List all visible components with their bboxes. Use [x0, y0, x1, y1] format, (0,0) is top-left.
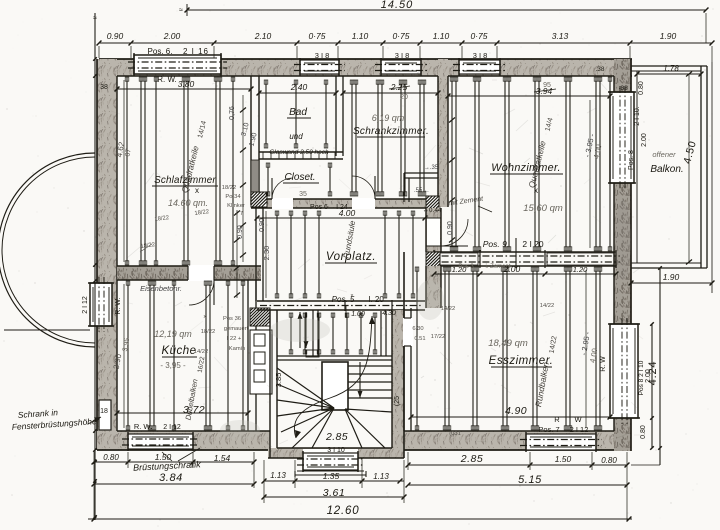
svg-text:0·75: 0·75: [392, 31, 409, 41]
svg-text:W: W: [574, 415, 582, 424]
svg-text:2.10: 2.10: [254, 31, 272, 41]
svg-text:Eisenbetonr.: Eisenbetonr.: [140, 284, 182, 293]
dimension row 1.20/2.00/1.20 (Esszimmer top): [432, 264, 619, 276]
interior dimension 3.72 (Kueche): [115, 404, 251, 416]
rotated dimensions Esszimmer right: [579, 331, 599, 364]
beam band Pos.9 2I20 between Wohnzimmer and Esszimmer: [428, 250, 620, 268]
svg-text:6.30: 6.30: [412, 326, 423, 332]
svg-text:1.78: 1.78: [663, 64, 679, 73]
svg-text:3.85: 3.85: [274, 373, 283, 388]
joists Closet: [266, 163, 332, 196]
svg-text:1.10: 1.10: [433, 31, 450, 41]
room label Schlafzimmer 14.60qm: [152, 175, 218, 208]
svg-text:0.90: 0.90: [259, 218, 266, 232]
svg-text:14/22: 14/22: [540, 303, 555, 309]
window 3I8 (Wohnzimmer top): [453, 51, 506, 76]
rotated dimensions Wohnzimmer right: [447, 110, 603, 248]
svg-text:4.24: 4.24: [647, 361, 659, 386]
svg-text:3.10: 3.10: [240, 122, 250, 137]
stair enclosure walls: [270, 252, 404, 458]
svg-text:I. 20: I. 20: [368, 295, 384, 304]
hatched pier near Wohnzimmer door: [426, 196, 439, 215]
joists Schlafzimmer: [125, 77, 235, 265]
window 2I12 (left wall): [82, 277, 122, 332]
wall: bottom exterior (right segment): [404, 431, 631, 450]
spine wall: hall | Esszimmer (lower): [426, 266, 441, 308]
smudges / pencil shading: [220, 200, 631, 440]
room label Closet: [283, 172, 319, 198]
rotated dimensions left side: [112, 80, 133, 428]
extension lines bottom: [94, 452, 627, 520]
wall: bottom exterior (left segment): [97, 431, 270, 450]
bay window arc (ground floor outline): [0, 153, 95, 347]
svg-text:3.80: 3.80: [178, 79, 195, 89]
dimension 3.84: [92, 472, 257, 486]
svg-text:4.00: 4.00: [592, 143, 604, 159]
svg-text:Brüstungschrank: Brüstungschrank: [133, 459, 201, 473]
svg-text:14/22: 14/22: [549, 335, 559, 354]
room label Wohnzimmer 15.60qm: [490, 162, 563, 214]
note Schrank in Fensterbruestungshoehe: [11, 407, 101, 432]
svg-text:0,76: 0,76: [229, 106, 236, 120]
svg-text:0.90: 0.90: [447, 221, 454, 235]
svg-text:14/22: 14/22: [194, 349, 209, 355]
wall B: Bad | Schrankzimmer: [336, 76, 343, 156]
svg-text:R: R: [554, 415, 560, 424]
wall: right exterior: [614, 59, 631, 451]
svg-text:Pos 6: Pos 6: [310, 204, 328, 211]
joists Kueche: [126, 281, 245, 430]
door swing: Schlafzimmer door: [189, 280, 214, 305]
balcony outline (Balkon): [631, 66, 707, 268]
svg-text:0.90: 0.90: [107, 31, 124, 41]
wall: Vorplatz left (Schlafzimmer side): [256, 208, 263, 301]
svg-text:x: x: [204, 314, 207, 320]
svg-text:·88: ·88: [618, 85, 628, 92]
window 3I8 (Schrankzimmer top): [375, 51, 427, 76]
svg-text:2 I 16: 2 I 16: [183, 47, 209, 56]
svg-text:2.85: 2.85: [325, 431, 348, 443]
svg-text:1.10: 1.10: [352, 31, 369, 41]
svg-text:Pos. 8: Pos. 8: [628, 150, 635, 170]
door swing: Schrankzimmer door: [352, 176, 375, 199]
svg-text:0.80: 0.80: [640, 425, 647, 439]
bottom dimension row 1.13/1.35/1.13 (stairs): [262, 471, 404, 483]
svg-text:0.51: 0.51: [414, 336, 425, 342]
wall: left exterior: [97, 59, 117, 450]
svg-text:0.80: 0.80: [638, 81, 645, 95]
dimension row top (0.90 / 2.00 / 2.10 / 0.75 / 1.10 / 0.75 / 1.10 / 0.75 / 3.13 / 1.90): [97, 31, 715, 45]
svg-text:17/22: 17/22: [431, 334, 446, 340]
svg-text:6,19 qm: 6,19 qm: [372, 113, 405, 123]
svg-text:3.90: 3.90: [112, 353, 124, 370]
chimney block with flues: [250, 308, 272, 394]
svg-text:Klinker: Klinker: [227, 203, 245, 209]
svg-text:35: 35: [299, 191, 307, 198]
svg-text:3 I 8: 3 I 8: [315, 51, 330, 60]
svg-text:i. Zement: i. Zement: [485, 264, 510, 270]
wall: top exterior (y59-76): [99, 59, 632, 76]
svg-text:3,95: 3,95: [122, 337, 131, 352]
wall A: Schlafzimmer | Bad/Closet: [251, 76, 259, 205]
small fraction notes Schlafzimmer: [140, 209, 209, 252]
balcony door Pos.8 2I10 (right wall): [595, 66, 648, 189]
svg-text:I 22 +: I 22 +: [227, 336, 242, 342]
joists Bad: [264, 80, 328, 148]
svg-text:↔0.44: ↔0.44: [422, 207, 442, 214]
interior dimension 3.94 (Wohnzimmer): [446, 82, 613, 98]
room label Bad: [269, 107, 329, 156]
joists Vorplatz: [275, 211, 415, 298]
svg-text:Pos. 9.: Pos. 9.: [483, 239, 509, 249]
svg-text:→.35: →.35: [424, 165, 439, 171]
labels Pos.9 2I20: [483, 238, 544, 268]
window Pos.8 2I10 (Esszimmer right wall): [600, 318, 652, 439]
interior dimension 2.40 (Bad): [257, 82, 339, 95]
svg-text:Po 34: Po 34: [225, 194, 241, 200]
dimension 1.90 (balcony bottom): [629, 62, 715, 293]
wall: Closet/Schrankzimmer bottom = Vorplatz top: [251, 198, 430, 209]
svg-text:2.00: 2.00: [641, 133, 648, 147]
room label Balkon: [650, 150, 683, 175]
svg-text:14/14: 14/14: [197, 120, 208, 139]
bottom dimension row 2.85/1.50/0.80 (Esszimmer): [406, 453, 630, 467]
svg-text:2 I 20: 2 I 20: [522, 239, 544, 249]
niche wall in Schrankzimmer bottom-right: [404, 165, 439, 202]
dimension 5.15: [406, 474, 630, 487]
joists Wohnzimmer: [450, 77, 612, 251]
svg-text:2 I 12: 2 I 12: [570, 425, 589, 434]
svg-text:0.80: 0.80: [601, 456, 617, 465]
hatched pier left of beam band: [426, 252, 440, 272]
svg-text:18/22: 18/22: [222, 185, 237, 191]
wall: Schlafzimmer | Kueche (Eisenbeton): [117, 265, 261, 281]
svg-text:2.00: 2.00: [163, 31, 181, 41]
svg-text:1.00: 1.00: [351, 311, 365, 318]
svg-text:18/22: 18/22: [140, 242, 155, 250]
wall: Kueche | stair hall: [248, 280, 256, 431]
joists hall below Vorplatz: [289, 313, 377, 354]
svg-text:Wohnzimmer.: Wohnzimmer.: [491, 162, 561, 174]
svg-text:R. W: R. W: [600, 356, 607, 372]
svg-text:Schrank in: Schrank in: [17, 407, 58, 420]
svg-text:x: x: [351, 293, 354, 299]
interior dimension 3.80 (Schlafzimmer): [115, 79, 254, 91]
svg-text:3.13: 3.13: [552, 31, 569, 41]
svg-text:3.84: 3.84: [159, 472, 183, 484]
svg-text:12.60: 12.60: [327, 505, 360, 517]
svg-text:Küche: Küche: [161, 345, 196, 357]
svg-text:15,60 qm: 15,60 qm: [523, 203, 563, 214]
svg-text:Kamin: Kamin: [229, 346, 245, 352]
svg-text:Pos. 7: Pos. 7: [538, 425, 559, 434]
door swing: Closet door: [272, 178, 293, 199]
interior dimension 4.00 (Vorplatz): [255, 204, 442, 220]
svg-text:2.30: 2.30: [262, 246, 271, 261]
wall C: Schrankzimmer | Wohnzimmer: [438, 59, 448, 207]
svg-text:16/22: 16/22: [197, 356, 207, 374]
svg-text:(25: (25: [394, 396, 401, 406]
svg-text:- 3,95 -: - 3,95 -: [160, 361, 186, 370]
svg-text:Pos 3: Pos 3: [458, 264, 474, 270]
svg-text:0·75: 0·75: [470, 31, 487, 41]
note Bruestungschrank: [133, 448, 201, 473]
small cupboard in left wall (Schrank): [99, 400, 111, 430]
hatched pier at Vorplatz top-left: [251, 192, 267, 207]
dimension line left vertical: [93, 13, 108, 520]
interior dimension 2.25/2.20 (Schrankzimmer): [341, 82, 441, 101]
svg-text:1.90: 1.90: [663, 272, 680, 282]
interior dimension 4.90 (Esszimmer): [409, 405, 613, 419]
svg-text:2 I 12: 2 I 12: [82, 296, 89, 314]
window Pos.6 2I16 (Schlafzimmer top): [128, 47, 227, 84]
svg-text:4.50: 4.50: [681, 139, 699, 165]
window R.W 2I12 (Kueche bottom): [122, 422, 199, 451]
svg-text:14.50: 14.50: [381, 0, 414, 11]
svg-text:3.61: 3.61: [323, 487, 345, 499]
svg-text:1.13: 1.13: [270, 471, 286, 480]
room label Esszimmer 18.49qm: [488, 338, 553, 367]
bottom dimension row 0.80/1.50/1.54: [92, 452, 257, 464]
room label Kueche 12.19qm: [154, 329, 197, 370]
wall: Vorplatz bottom / stair top with beam Pos.5 I20: [257, 300, 425, 311]
wall: Esszimmer left: [403, 308, 413, 431]
svg-text:38: 38: [100, 84, 108, 91]
labels Pos.5 I20: [332, 295, 396, 318]
svg-text:1.90: 1.90: [248, 132, 258, 147]
svg-text:0.80: 0.80: [103, 453, 119, 462]
svg-text:12,19 qm: 12,19 qm: [154, 329, 192, 339]
svg-text:18/22: 18/22: [154, 215, 169, 223]
rotated dimensions near Bad left wall: [229, 95, 271, 298]
svg-text:67: 67: [124, 148, 132, 157]
svg-text:Pos 8 2 I 10: Pos 8 2 I 10: [638, 360, 645, 395]
svg-text:Bad: Bad: [289, 107, 307, 118]
svg-text:Closet.: Closet.: [284, 172, 315, 183]
joists Schrankzimmer: [350, 80, 426, 196]
window Pos.7 2I12 (Esszimmer bottom): [520, 415, 602, 452]
stairwell lower wall block: [268, 448, 404, 458]
dimension 4.50 (balcony right, rotated): [681, 72, 699, 265]
door opening: Vorplatz to Wohnzimmer: [427, 218, 440, 246]
svg-text:Pos 36: Pos 36: [223, 316, 241, 322]
staircase: [274, 312, 401, 454]
svg-text:18,49 qm: 18,49 qm: [488, 338, 528, 349]
entry door with steps (bottom, below stairs): [295, 451, 366, 477]
svg-text:3 I 8: 3 I 8: [473, 51, 488, 60]
svg-text:18/22: 18/22: [194, 209, 209, 217]
left auxiliary line: [4, 329, 90, 331]
svg-text:und: und: [289, 132, 303, 141]
svg-text:95: 95: [543, 82, 551, 89]
extension lines top: [99, 13, 712, 62]
svg-text:≈: ≈: [179, 7, 183, 14]
svg-text:18/22: 18/22: [201, 329, 216, 335]
svg-text:20: 20: [400, 94, 408, 101]
room label Vorplatz: [325, 251, 377, 263]
svg-text:0.90: 0.90: [237, 225, 244, 239]
svg-text:2 I 10.: 2 I 10.: [634, 106, 641, 126]
svg-text:R. W.: R. W.: [115, 297, 122, 314]
svg-text:(031: (031: [449, 431, 461, 437]
svg-text:1.54: 1.54: [214, 453, 231, 463]
spine wall: Vorplatz | Wohnzimmer (upper): [426, 208, 441, 252]
svg-text:3 I 10: 3 I 10: [327, 447, 345, 454]
dimension 14.50 (overall top): [179, 0, 708, 16]
svg-text:Glaswand 2.50 hoch: Glaswand 2.50 hoch: [269, 149, 329, 156]
svg-text:3 I 8: 3 I 8: [395, 51, 410, 60]
dimension 4.24 (right side rotated): [631, 266, 662, 465]
ambient pencil scribbles: [111, 62, 644, 447]
svg-text:Schrankzimmer.: Schrankzimmer.: [353, 126, 429, 137]
window 3I8 (Bad top): [294, 51, 345, 76]
svg-text:Pos. 6.: Pos. 6.: [148, 47, 173, 56]
svg-text:.38: .38: [595, 66, 604, 73]
door swing: Vorplatz to Wohnzimmer: [441, 219, 468, 246]
svg-text:1.90: 1.90: [660, 31, 677, 41]
dimension 3.61: [262, 487, 407, 499]
svg-text:offener: offener: [652, 150, 676, 159]
interior vertical dim lines (2.95/4.00 and 3.95/4.00): [266, 100, 590, 428]
svg-text:18: 18: [100, 408, 108, 415]
svg-text:R. W.: R. W.: [157, 75, 177, 84]
room label Schrankzimmer 6.19qm: [353, 113, 429, 137]
svg-text:≈: ≈: [93, 15, 97, 22]
svg-text:4.00: 4.00: [588, 348, 599, 364]
svg-text:5.15: 5.15: [518, 474, 542, 486]
newel wall stub in hall: [306, 310, 386, 357]
svg-text:1.35: 1.35: [323, 471, 340, 481]
svg-text:4.90: 4.90: [505, 405, 527, 417]
svg-text:+ 7: + 7: [235, 211, 243, 217]
small fraction notes: [194, 185, 555, 437]
svg-text:2.40: 2.40: [290, 82, 308, 92]
svg-text:Balkon.: Balkon.: [650, 164, 683, 175]
svg-text:x: x: [195, 186, 199, 195]
svg-text:1.13: 1.13: [373, 472, 389, 481]
dimension 1.78 (balcony top): [635, 64, 704, 76]
svg-text:0·75: 0·75: [308, 31, 325, 41]
svg-text:1.50: 1.50: [555, 454, 572, 464]
svg-text:14/4: 14/4: [545, 117, 555, 132]
dimension 12.60 (overall bottom): [88, 505, 632, 521]
handwritten beam notes (rotated): [179, 117, 558, 421]
svg-text:4.30: 4.30: [382, 310, 396, 317]
svg-text:I 24: I 24: [336, 204, 348, 211]
glass wall (Glaswand) between Bad and Closet: [259, 152, 343, 159]
joists Esszimmer: [415, 267, 602, 430]
svg-text:14.60 qm.: 14.60 qm.: [168, 198, 208, 208]
svg-text:2.85: 2.85: [460, 453, 483, 465]
